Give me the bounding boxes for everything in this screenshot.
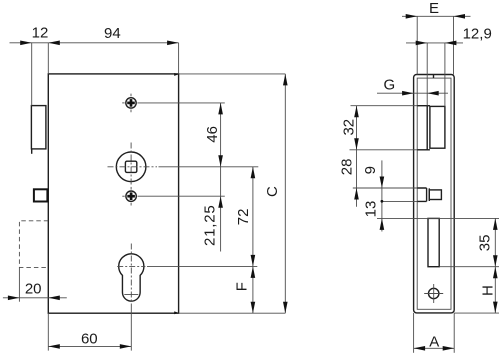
slot top extension line xyxy=(377,217,499,219)
svg-text:21,25: 21,25 xyxy=(202,204,219,246)
dimension 35 xyxy=(477,218,498,266)
screw hole (side view) circle xyxy=(429,288,439,298)
handle follower circle xyxy=(116,152,146,182)
dimension H xyxy=(479,267,497,313)
latch bolt stem edge xyxy=(426,106,428,150)
follower centerlines xyxy=(108,166,158,168)
body bottom extension line to C xyxy=(179,312,286,314)
aux pin head xyxy=(429,190,441,200)
dimension 21,25 xyxy=(202,167,223,252)
shackle slot (side view) xyxy=(428,218,439,266)
svg-text:12: 12 xyxy=(32,25,49,42)
spindle square hole xyxy=(125,161,136,172)
case top center tick xyxy=(433,75,435,79)
svg-text:C: C xyxy=(264,186,281,197)
dimension 46 xyxy=(204,103,223,167)
dimension 12 xyxy=(10,25,49,106)
latch bolt top line xyxy=(417,105,430,107)
latch bolt bottom line xyxy=(417,149,430,151)
svg-text:F: F xyxy=(233,282,250,291)
corner tick arrow top-right xyxy=(174,73,178,76)
dimension 32 xyxy=(341,106,359,150)
lock case body front view xyxy=(48,74,178,313)
cylinder centerline to 60 dim xyxy=(130,307,132,351)
cylinder centerlines xyxy=(117,265,145,267)
screw hole crosshairs xyxy=(424,293,443,295)
svg-text:12,9: 12,9 xyxy=(463,25,492,42)
aux pin collar (side view) xyxy=(417,188,426,201)
dimension 9 xyxy=(362,160,384,231)
dimension C xyxy=(264,74,288,313)
screw hole extension line to 46 dim xyxy=(137,102,224,104)
screw hole bottom extension line to 21,25 dim xyxy=(138,195,225,197)
body top extension line to C xyxy=(179,73,286,75)
latch bolt (front view, protruding left) xyxy=(31,106,46,149)
svg-text:28: 28 xyxy=(338,159,355,176)
latch bolt head (side view) xyxy=(430,106,445,148)
slot bottom extension line xyxy=(439,266,499,268)
dimension 13 with dot xyxy=(362,200,384,230)
svg-text:13: 13 xyxy=(362,201,379,218)
svg-text:9: 9 xyxy=(362,166,379,174)
lock case side view inner wall lines xyxy=(417,78,451,309)
latch bottom extension line xyxy=(350,149,418,151)
screw hole bottom (circle with cross) xyxy=(122,187,136,206)
svg-text:60: 60 xyxy=(81,330,98,347)
svg-text:32: 32 xyxy=(341,119,358,136)
svg-text:72: 72 xyxy=(235,209,252,226)
dimension A xyxy=(414,313,455,353)
svg-text:20: 20 xyxy=(25,281,42,298)
dimension F xyxy=(233,266,255,313)
svg-text:94: 94 xyxy=(104,25,121,42)
corner tick arrow bottom-right xyxy=(174,311,178,314)
lock case side view outer outline xyxy=(414,75,455,313)
latch top extension line xyxy=(351,105,418,107)
aux pin shoulder xyxy=(427,188,430,201)
dimension 94 xyxy=(48,25,178,74)
hidden shackle opening (dashed box) xyxy=(19,221,48,268)
follower extension line to 46/72 dims xyxy=(159,166,259,168)
dimension 60 xyxy=(48,313,131,350)
euro profile cylinder hole xyxy=(119,254,144,301)
svg-text:G: G xyxy=(383,77,395,94)
dimension 28 xyxy=(338,150,359,207)
svg-text:A: A xyxy=(429,333,439,350)
svg-text:46: 46 xyxy=(204,126,221,143)
pin bottom extension line xyxy=(382,200,417,202)
auxiliary latch pin square (front view) xyxy=(34,189,48,201)
svg-text:E: E xyxy=(429,0,439,17)
dimension 20 xyxy=(3,267,67,301)
dimension G xyxy=(377,77,448,96)
dimension 12,9 xyxy=(406,25,492,106)
cylinder extension line to 72/F dims xyxy=(147,265,257,267)
case bottom extension line right xyxy=(454,312,499,314)
latch bolt stub line xyxy=(31,149,33,154)
dimension E xyxy=(402,0,471,74)
screw hole top (circle with cross) xyxy=(122,94,136,113)
svg-text:H: H xyxy=(479,285,496,296)
pin top extension line xyxy=(353,187,418,189)
svg-text:35: 35 xyxy=(477,235,494,252)
dimension 72 xyxy=(235,167,255,267)
